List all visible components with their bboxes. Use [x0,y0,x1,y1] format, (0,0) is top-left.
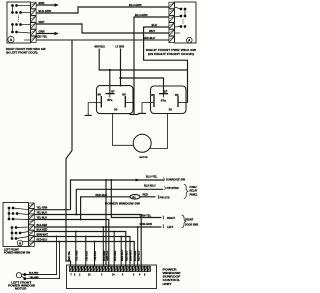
svg-text:85: 85 [122,93,126,97]
svg-text:RED-BLU: RED-BLU [143,36,155,40]
svg-text:BRN: BRN [39,1,45,5]
svg-text:15A: 15A [132,196,136,199]
svg-text:87: 87 [164,89,168,93]
svg-text:86: 86 [98,93,102,97]
svg-text:85: 85 [175,93,179,97]
svg-text:POWER: POWER [163,267,177,271]
svg-text:RED: RED [143,193,149,197]
svg-text:BLK-RED: BLK-RED [29,273,39,275]
svg-text:POWER WINDOW SW: POWER WINDOW SW [4,251,31,254]
svg-text:87a: 87a [107,98,112,102]
svg-text:UNIT: UNIT [163,282,172,286]
svg-text:BLK-RED: BLK-RED [115,250,117,261]
svg-text:BLU-GRN: BLU-GRN [135,13,147,17]
svg-text:PW MTRS: PW MTRS [167,186,180,190]
svg-text:CONTROL: CONTROL [163,278,181,282]
svg-text:BLK-GRN: BLK-GRN [39,9,51,13]
svg-text:BLK: BLK [152,23,158,27]
svg-text:RED-BLU: RED-BLU [37,239,48,242]
svg-text:RED-YEL: RED-YEL [36,34,48,38]
svg-text:LT GRN: LT GRN [116,46,125,48]
svg-text:RED-YEL: RED-YEL [69,250,71,261]
svg-text:SUNROOF SW: SUNROOF SW [166,177,186,181]
svg-text:30: 30 [169,108,173,112]
svg-text:BLK-BLU: BLK-BLU [144,184,156,188]
svg-text:YEL-BLU: YEL-BLU [95,251,97,261]
svg-text:BLU-GRN: BLU-GRN [129,3,141,7]
svg-text:YEL-GRN: YEL-GRN [76,250,78,261]
svg-text:(IN RIGHT FRONT DOOR): (IN RIGHT FRONT DOOR) [148,52,194,56]
svg-text:BRN-WHT: BRN-WHT [131,249,133,261]
svg-text:DOOR SWS: DOOR SWS [185,223,199,226]
svg-text:GRN: GRN [39,30,45,34]
svg-text:WINDOW/: WINDOW/ [163,271,181,275]
svg-text:GRN-YEL: GRN-YEL [107,250,109,261]
svg-text:FUSE/: FUSE/ [190,186,197,189]
svg-text:PANEL: PANEL [190,193,198,196]
svg-text:RED-BLU: RED-BLU [126,250,128,261]
svg-text:LEFT: LEFT [167,225,174,229]
svg-text:POWER WINDOW SW: POWER WINDOW SW [105,201,141,205]
svg-text:BRN-WHT: BRN-WHT [122,249,124,261]
svg-text:YEL-GRN: YEL-GRN [37,207,48,210]
svg-text:YEL-RED: YEL-RED [30,277,40,279]
svg-text:YEL-BLU: YEL-BLU [37,212,48,215]
svg-text:BLK-RED: BLK-RED [37,229,48,232]
svg-text:BLU-RED: BLU-RED [135,250,137,261]
svg-text:WHT: WHT [39,20,45,24]
svg-text:RELAY: RELAY [190,190,198,193]
svg-text:87: 87 [111,90,115,94]
svg-text:PW SYS: PW SYS [160,196,170,200]
svg-text:BRN-WHT: BRN-WHT [37,234,49,237]
svg-text:WHT-BLU: WHT-BLU [95,46,106,48]
svg-text:WHT: WHT [149,29,155,33]
svg-text:RED-BLU: RED-BLU [138,250,140,261]
svg-text:YEL-BLU: YEL-BLU [86,251,88,261]
svg-text:SUNROOF: SUNROOF [163,275,181,279]
svg-text:FRONT: FRONT [185,218,194,221]
svg-text:30: 30 [114,108,118,112]
svg-text:MOTOR: MOTOR [15,286,27,290]
svg-text:RIGHT: RIGHT [167,216,175,220]
svg-text:BLK-RED: BLK-RED [37,224,48,227]
svg-text:86: 86 [151,93,155,97]
svg-text:YEL-BLU: YEL-BLU [37,217,48,220]
svg-text:RED-BLK: RED-BLK [96,193,108,197]
svg-text:MOTOR: MOTOR [140,157,149,159]
svg-text:(IN LEFT FRONT DOOR): (IN LEFT FRONT DOOR) [6,50,38,54]
svg-text:BLK-RED: BLK-RED [104,250,106,261]
svg-text:87a: 87a [161,98,166,102]
svg-text:BLU-YEL: BLU-YEL [146,175,158,179]
